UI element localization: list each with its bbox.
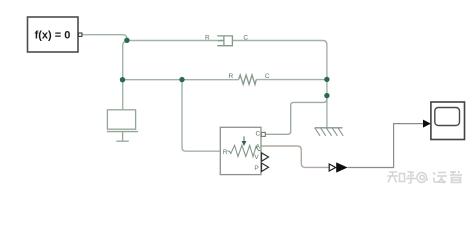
运 [433,173,447,183]
solver block port nub [79,33,82,36]
svg-text:P: P [254,165,258,172]
physical signal wire sensor A port to converter [262,146,330,167]
wire lower branch (mass node to spring R) [123,79,239,81]
PS-Simulink converter (output arrow) [336,162,347,172]
PS-Simulink converter (input triangle) [329,164,335,171]
watermark 知乎 @运酱 [388,171,463,183]
wire sensor C port to ground node [265,96,327,134]
svg-text:C: C [243,34,248,41]
wire node B down to sensor R port [182,80,220,152]
junction node mass/spring [120,77,125,82]
svg-text:C: C [255,130,260,137]
乎 [406,172,416,184]
spring (translational spring) [239,75,257,85]
酱 [450,171,462,183]
知 [388,172,405,183]
svg-text:R: R [205,34,210,41]
wire spring C to right vertical node [256,79,327,81]
svg-text:C: C [265,73,270,80]
wire node A down to mass [123,40,127,109]
ideal translational motion sensor U1 [220,127,261,174]
simulink signal wire converter to scope [348,124,424,168]
signal arrowhead at scope input [423,120,431,128]
damper (translational damper) [217,36,232,46]
@ [417,173,428,183]
wire from solver block to node A [81,35,127,41]
wire damper C to right vertical [232,41,327,80]
wire right vertical to ground [326,79,328,128]
svg-text:R: R [228,73,233,80]
scope block [431,102,465,140]
junction node B (sensor branch) [179,77,184,82]
sensor V port triangle [262,153,269,162]
svg-text:V: V [254,154,259,161]
svg-text:f(x) = 0: f(x) = 0 [35,30,71,42]
wire top branch (node A to damper R) [127,40,224,42]
sensor P port triangle [262,163,269,172]
junction node ground / sensor case [324,93,329,98]
mass block [107,110,138,141]
svg-text:A: A [256,143,261,150]
mechanical translational reference (ground) [315,128,344,136]
sensor C port nub [261,132,265,136]
svg-text:R: R [223,149,228,156]
sensor icon zigzag [228,145,261,156]
sensor icon arrow [243,136,245,141]
junction node spring C / right vertical [324,77,329,82]
junction node A [124,38,129,43]
solver configuration block f(x)=0 [28,17,79,52]
